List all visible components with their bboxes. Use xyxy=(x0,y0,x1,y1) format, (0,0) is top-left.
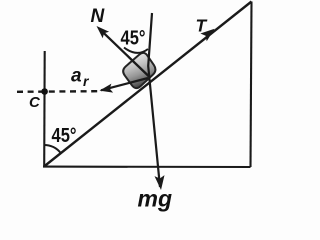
svg-text:45°: 45° xyxy=(52,125,77,147)
svg-text:N: N xyxy=(91,6,106,27)
radial acceleration a_r arrow shaft xyxy=(101,78,148,90)
right vertical edge xyxy=(251,2,252,168)
block on incline xyxy=(123,53,155,88)
svg-text:45°: 45° xyxy=(121,28,146,50)
svg-text:mg: mg xyxy=(138,186,173,212)
weight mg arrow xyxy=(148,13,160,187)
svg-text:T: T xyxy=(196,16,208,36)
45 deg arc between N and vertical xyxy=(124,48,148,53)
svg-text:C: C xyxy=(29,94,41,111)
bottom edge xyxy=(43,166,251,168)
svg-text:a: a xyxy=(71,66,82,87)
incline surface xyxy=(44,2,252,167)
tension T arrowhead xyxy=(200,29,214,42)
normal force N arrow xyxy=(100,29,150,77)
left vertical line xyxy=(43,51,46,167)
dashed line to C xyxy=(17,90,98,93)
45 deg arc at base xyxy=(44,145,61,153)
point C dot xyxy=(41,88,48,95)
